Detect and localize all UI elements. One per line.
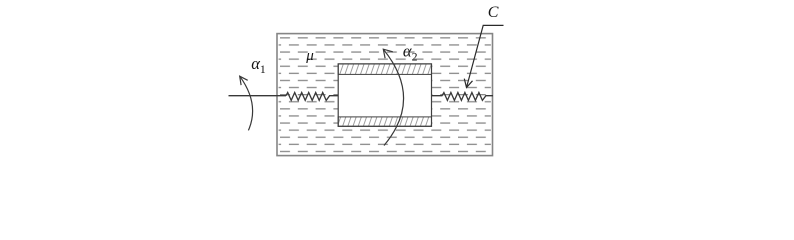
spring left	[286, 93, 338, 101]
leader line C	[467, 25, 504, 87]
arc alpha1	[240, 76, 253, 130]
mass block bottom hatched strip	[338, 117, 431, 126]
container C (fluid vessel)	[277, 34, 493, 156]
svg-text:C: C	[488, 4, 499, 21]
svg-text:μ: μ	[305, 48, 314, 64]
arrowhead alpha1	[240, 76, 248, 85]
arrowhead alpha2	[383, 49, 393, 58]
arrowhead C	[464, 79, 472, 88]
mass block body	[338, 64, 431, 126]
fluid (dashes)	[279, 35, 491, 154]
arc alpha2	[383, 49, 403, 145]
svg-text:α1: α1	[251, 54, 266, 76]
spring right	[432, 93, 494, 101]
wire shaft left	[229, 95, 287, 97]
mass block top hatched strip	[338, 64, 431, 75]
